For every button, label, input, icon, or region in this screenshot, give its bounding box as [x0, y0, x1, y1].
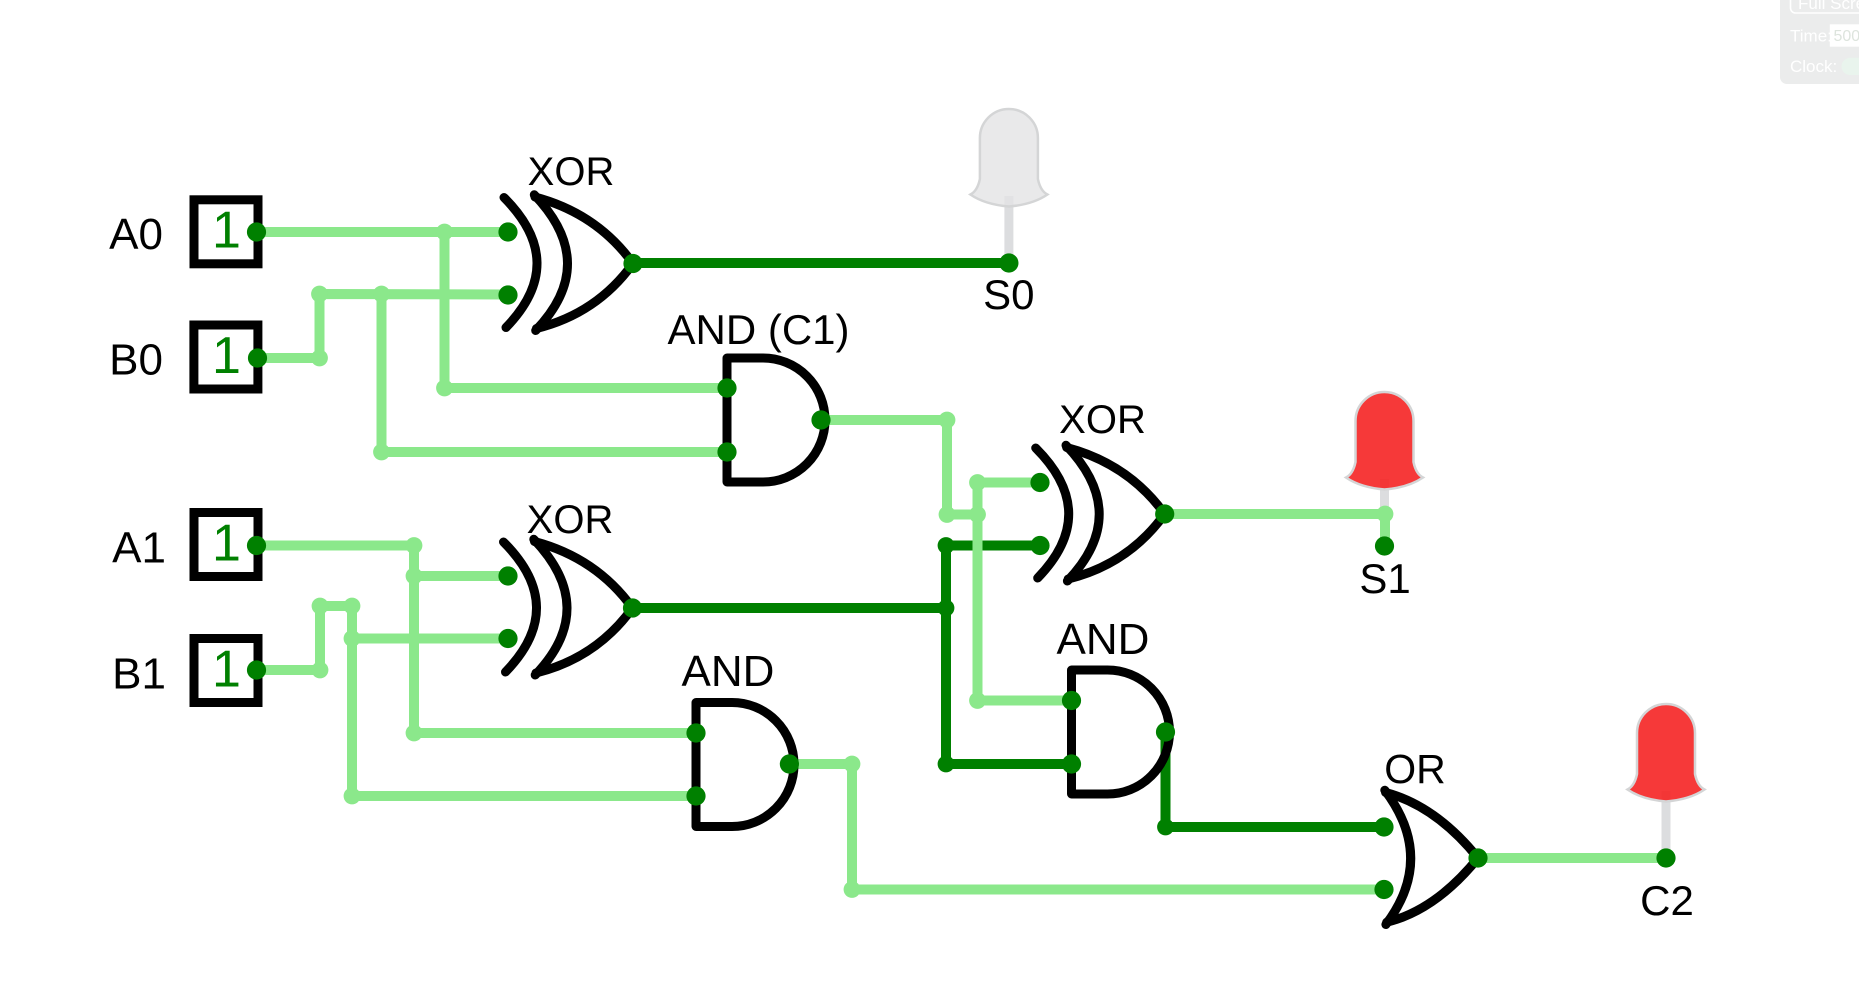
svg-text:1: 1 [212, 640, 241, 698]
LED S0 (off) [970, 109, 1047, 261]
xor gate XOR1 (A0 xor B0) [504, 195, 633, 331]
wire A0 net to XOR1.in1 and AND1.in1 [257, 232, 728, 388]
svg-text:AND: AND [682, 647, 775, 696]
svg-text:1: 1 [212, 514, 241, 572]
svg-text:OR: OR [1384, 746, 1446, 792]
input B0 (value 1) [194, 325, 258, 389]
wire AND3 out to OR.in1 [1166, 732, 1385, 827]
svg-text:B0: B0 [109, 336, 163, 385]
wire A1 net to XOR2.in1 and AND2.in1 [257, 546, 697, 734]
LED S1 (on) [1346, 392, 1423, 544]
svg-text:500: 500 [1834, 28, 1859, 45]
LED C2 (on) [1628, 704, 1705, 856]
component terminal node dots [247, 222, 1676, 899]
svg-text:XOR: XOR [1059, 398, 1146, 442]
input A0 (value 1) [194, 200, 258, 264]
wire junction dots (on nets) [311, 224, 1393, 898]
svg-text:1: 1 [212, 327, 241, 385]
Clock toggle [1842, 58, 1859, 75]
svg-text:Full Scre: Full Scre [1798, 0, 1859, 13]
Time input box [1830, 24, 1859, 46]
wire B0 net to XOR1.in2 and AND1.in2 [258, 294, 728, 452]
wire junction dots (off nets) [938, 537, 1174, 835]
wire C1 net: AND1 out to XOR3.in1 and AND3.in1 [821, 420, 1072, 701]
svg-text:B1: B1 [112, 650, 166, 699]
svg-text:A0: A0 [109, 210, 163, 259]
svg-text:S1: S1 [1359, 555, 1410, 602]
svg-text:Time:: Time: [1790, 27, 1832, 46]
svg-text:XOR: XOR [528, 150, 615, 194]
wire XOR2 out net (A1 xor B1 = 0) to XOR3.in2 and AND3.in2 [633, 546, 1072, 765]
svg-text:AND (C1): AND (C1) [667, 306, 849, 353]
wire S0 net: XOR1 out to LED S0 [633, 258, 1009, 268]
and gate AND2 (A1 and B1) [696, 703, 794, 827]
xor gate XOR2 (A1 xor B1) [504, 539, 633, 675]
svg-text:1: 1 [212, 202, 241, 260]
svg-text:AND: AND [1057, 615, 1150, 664]
top-right control panel background [1780, 0, 1859, 84]
wire C2 net: OR out to LED C2 [1478, 853, 1666, 863]
xor gate XOR3 (sum S1) [1036, 445, 1165, 581]
input A1 (value 1) [194, 513, 258, 577]
wire AND2 out to OR.in2 [789, 764, 1384, 890]
and gate AND1 (C1) [727, 358, 825, 482]
svg-text:C2: C2 [1640, 877, 1694, 924]
svg-text:XOR: XOR [527, 498, 614, 542]
wire B1 net to XOR2.in2 and AND2.in2 [257, 606, 697, 796]
svg-text:Clock:: Clock: [1790, 57, 1837, 76]
and gate AND3 [1072, 670, 1170, 794]
wire S1 net: XOR3 out to LED S1 [1165, 514, 1385, 546]
svg-text:A1: A1 [112, 524, 166, 573]
Full Screen button (clipped) [1791, 0, 1859, 13]
or gate OR (carry C2) [1385, 790, 1478, 924]
svg-text:S0: S0 [983, 271, 1034, 318]
input B1 (value 1) [194, 639, 258, 703]
